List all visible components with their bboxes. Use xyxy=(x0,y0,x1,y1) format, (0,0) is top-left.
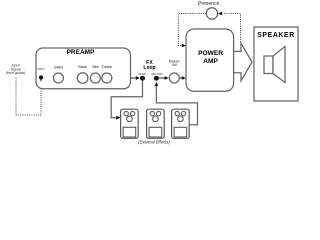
svg-text:Treble: Treble xyxy=(101,65,112,69)
svg-text:POWER: POWER xyxy=(198,50,223,57)
svg-text:Vol: Vol xyxy=(172,63,177,67)
svg-text:RETURN: RETURN xyxy=(151,72,162,76)
svg-text:(from guitar): (from guitar) xyxy=(6,71,26,75)
svg-text:Mid: Mid xyxy=(92,65,98,69)
svg-text:SPEAKER: SPEAKER xyxy=(257,32,294,39)
svg-text:GAIN: GAIN xyxy=(54,65,64,69)
svg-text:(External Effects): (External Effects) xyxy=(138,139,170,144)
svg-text:AMP: AMP xyxy=(203,58,218,65)
svg-text:Bass: Bass xyxy=(78,65,87,69)
svg-text:PREAMP: PREAMP xyxy=(67,49,95,56)
svg-text:INPUT: INPUT xyxy=(37,67,45,71)
svg-text:Loop: Loop xyxy=(143,65,155,71)
svg-text:Presence: Presence xyxy=(198,1,219,7)
svg-text:SEND: SEND xyxy=(138,72,146,76)
